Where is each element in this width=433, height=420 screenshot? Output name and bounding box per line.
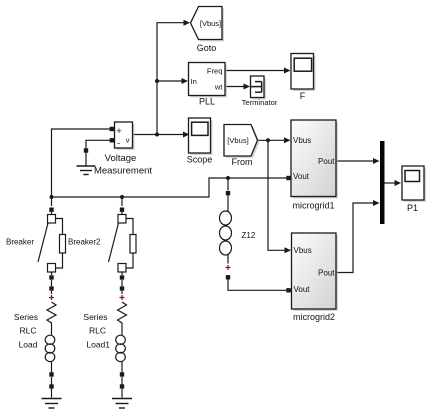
svg-text:Freq: Freq xyxy=(207,66,223,75)
svg-text:Breaker2: Breaker2 xyxy=(68,237,101,246)
svg-text:Terminator: Terminator xyxy=(242,98,278,107)
svg-text:In: In xyxy=(191,77,197,86)
svg-text:Z12: Z12 xyxy=(242,231,256,240)
svg-text:RLC: RLC xyxy=(19,326,36,336)
svg-text:Series: Series xyxy=(83,312,107,322)
svg-text:F: F xyxy=(300,91,306,101)
svg-text:PLL: PLL xyxy=(199,97,215,107)
svg-text:Series: Series xyxy=(14,312,38,322)
svg-text:Load1: Load1 xyxy=(86,339,110,349)
svg-text:From: From xyxy=(232,157,253,167)
svg-text:v: v xyxy=(126,136,130,145)
svg-text:RLC: RLC xyxy=(89,326,106,336)
svg-text:-: - xyxy=(117,138,120,149)
svg-text:Measurement: Measurement xyxy=(94,166,152,177)
svg-text:P1: P1 xyxy=(407,203,418,213)
svg-text:microgrid2: microgrid2 xyxy=(293,312,335,322)
svg-text:Vbus: Vbus xyxy=(293,136,311,145)
svg-text:Voltage: Voltage xyxy=(105,153,137,164)
svg-text:Goto: Goto xyxy=(197,43,217,53)
svg-text:Pout: Pout xyxy=(318,157,335,166)
svg-text:Vout: Vout xyxy=(294,285,311,294)
svg-text:[Vbus]: [Vbus] xyxy=(227,136,249,145)
svg-text:Pout: Pout xyxy=(318,269,335,278)
svg-text:Breaker: Breaker xyxy=(6,237,34,246)
svg-text:Load: Load xyxy=(19,339,38,349)
svg-text:[Vbus]: [Vbus] xyxy=(200,19,221,28)
svg-text:Scope: Scope xyxy=(187,154,213,164)
svg-text:wt: wt xyxy=(214,82,223,91)
svg-text:Vout: Vout xyxy=(293,172,310,181)
svg-text:microgrid1: microgrid1 xyxy=(292,200,334,210)
svg-text:Vbus: Vbus xyxy=(294,246,312,255)
svg-text:+: + xyxy=(116,126,122,137)
